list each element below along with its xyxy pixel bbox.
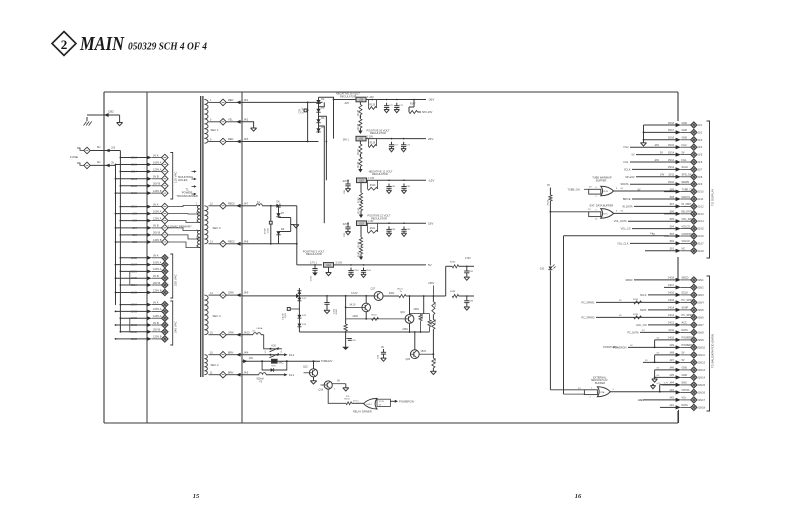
svg-text:J16/16: J16/16	[698, 391, 706, 394]
svg-text:BRN: BRN	[228, 351, 233, 354]
capacitor C160	[361, 268, 372, 278]
svg-text:Q20: Q20	[406, 358, 411, 361]
svg-text:J4/7: J4/7	[669, 359, 674, 362]
resistor divider R136	[358, 115, 362, 130]
arrow to positive 12V regulator	[359, 211, 391, 221]
svg-text:FIL2: FIL2	[682, 144, 688, 147]
svg-text:R160: R160	[336, 308, 338, 314]
svg-text:SDATA: SDATA	[621, 183, 629, 186]
svg-text:ACC: ACC	[682, 322, 687, 325]
wire Q19 to relay driver	[328, 389, 346, 403]
capacitor C84	[386, 226, 396, 236]
resistor R132 pc spkr1	[633, 299, 642, 304]
connector J2/23 120V B	[115, 288, 169, 296]
display pin J5/10 SDWN J1/9	[630, 181, 703, 187]
svg-text:SEC 4: SEC 4	[213, 314, 222, 318]
svg-text:J16/3: J16/3	[698, 294, 705, 297]
bracket 240 VAC	[170, 301, 177, 345]
svg-text:J5/6: J5/6	[669, 211, 674, 214]
wire D10 down to sensor buffer	[549, 271, 551, 390]
svg-text:3 -26V: 3 -26V	[367, 97, 374, 99]
svg-text:R126: R126	[547, 199, 549, 205]
capacitor C94 0V	[378, 346, 387, 362]
svg-text:J16/11: J16/11	[698, 354, 706, 357]
svg-text:SEC 1: SEC 1	[211, 128, 220, 132]
resistor R159	[428, 314, 433, 332]
svg-text:J16/15: J16/15	[698, 384, 706, 387]
svg-text:RED: RED	[228, 138, 233, 141]
capacitor C80 input	[344, 180, 351, 195]
svg-text:BUFFER: BUFFER	[595, 382, 605, 385]
svg-text:240V: 240V	[353, 315, 359, 318]
vertical rail bus 1	[146, 92, 148, 423]
svg-text:SSHF: SSHF	[682, 307, 689, 310]
display pin J5/8 NAVCS J1/11	[632, 196, 704, 202]
positive 5 volt regulator label	[303, 249, 325, 256]
capacitor C130 4700uF	[311, 264, 318, 281]
positive 5 volt regulator U34	[324, 263, 343, 268]
capacitor C90 with ground	[324, 295, 330, 314]
svg-text:FIL2: FIL2	[623, 146, 629, 149]
wire bridge output top	[319, 97, 357, 99]
svg-text:J1/2: J1/2	[698, 131, 703, 134]
wire SEC1 mid to ground	[242, 122, 257, 131]
diode D3	[316, 117, 325, 123]
wire jumper group3	[130, 271, 131, 285]
svg-text:J1/3: J1/3	[698, 139, 703, 142]
svg-text:R139: R139	[370, 142, 376, 144]
tap SEC1 pin 5 YEL	[209, 118, 249, 125]
svg-text:R131: R131	[345, 399, 351, 401]
svg-text:VOLCS: VOLCS	[682, 225, 691, 228]
tap SEC2 pin 11 BRN	[209, 371, 249, 378]
wire 170V branch	[446, 266, 453, 296]
svg-text:0V B: 0V B	[153, 274, 159, 278]
svg-text:IR_DATA: IR_DATA	[622, 205, 633, 208]
gate U17C ext data	[550, 209, 677, 221]
svg-text:470uF: 470uF	[265, 227, 267, 234]
svg-text:J5/3: J5/3	[669, 233, 674, 236]
pod pin J4/15 PC_SPKR1 J16/4	[596, 299, 704, 305]
svg-text:SEC 3: SEC 3	[213, 226, 222, 230]
pod pin J4/1 DATA J16/18	[660, 404, 706, 410]
svg-text:REGULATOR: REGULATOR	[370, 131, 386, 135]
svg-text:U33: U33	[359, 222, 364, 225]
pod pin J4/9 POWERON J16/10	[628, 344, 706, 350]
svg-text:DATA: DATA	[682, 329, 689, 332]
svg-text:C150: C150	[353, 270, 359, 272]
diode D20 on rail	[296, 294, 327, 298]
svg-text:REGULATOR: REGULATOR	[371, 216, 387, 220]
svg-text:U32: U32	[359, 179, 364, 182]
svg-text:POWERON: POWERON	[399, 400, 414, 404]
wire -15V output	[367, 179, 435, 183]
arrow to negative 12V regulator	[358, 167, 393, 177]
svg-text:TO BAL/DATA POD (DATA): TO BAL/DATA POD (DATA)	[711, 334, 715, 368]
resistor R155	[430, 354, 437, 374]
transformer primary winding A	[168, 203, 200, 223]
wire SEC3 bottom	[242, 243, 297, 245]
capacitor C71	[394, 103, 404, 113]
transformer T1 core	[201, 96, 203, 377]
svg-text:154V: 154V	[421, 350, 427, 353]
capacitor C70	[384, 103, 394, 113]
svg-text:ACC_ON: ACC_ON	[636, 324, 647, 327]
svg-text:VOL_DATA: VOL_DATA	[614, 220, 627, 223]
svg-text:VS+: VS+	[682, 397, 687, 400]
display pin J5/3 CONTROL J1/16	[652, 233, 704, 239]
diode D6	[276, 201, 296, 208]
svg-text:J16/1: J16/1	[698, 279, 705, 282]
svg-text:REGULATOR: REGULATOR	[306, 252, 322, 256]
gate U17B tube warmup	[567, 186, 676, 198]
pod pin J4/11 DATA J16/8	[640, 329, 704, 335]
wire bridge center	[307, 102, 309, 141]
svg-text:LEDA: LEDA	[257, 327, 263, 330]
svg-text:TRANSFORMER: TRANSFORMER	[176, 194, 198, 198]
svg-text:RELAY DRIVER: RELAY DRIVER	[353, 410, 372, 414]
svg-text:SEC 2: SEC 2	[211, 363, 220, 367]
positive 26 volt regulator U31	[343, 136, 374, 141]
svg-text:SCLK: SCLK	[682, 292, 689, 295]
svg-text:120V B: 120V B	[153, 288, 162, 292]
svg-text:12 5V: 12 5V	[379, 401, 385, 403]
negative 26 volt regulator U30	[336, 92, 374, 105]
wire fuse upper to bus	[90, 145, 120, 152]
svg-text:15: 15	[193, 493, 200, 500]
svg-text:C160: C160	[366, 270, 372, 272]
pod pin J4/12 ACC J16/7	[648, 322, 704, 328]
svg-text:J2/10: J2/10	[131, 205, 138, 209]
transformer secondary SEC 3	[204, 206, 221, 244]
connector J2/25 0V B	[115, 274, 169, 282]
wire control net long	[564, 233, 669, 394]
svg-text:J1/18: J1/18	[698, 250, 705, 253]
svg-text:6C: 6C	[97, 160, 101, 164]
svg-text:3.12V: 3.12V	[351, 292, 358, 295]
resistor R162	[372, 314, 379, 320]
svg-text:0V B: 0V B	[153, 321, 159, 325]
svg-text:J4/4: J4/4	[669, 382, 674, 385]
svg-text:D10: D10	[540, 269, 545, 271]
relay K20 coil TUBE12V	[242, 358, 333, 367]
capacitor C85	[401, 226, 411, 236]
svg-text:-26V: -26V	[428, 98, 434, 102]
net 0V stub	[547, 184, 550, 195]
svg-text:0V: 0V	[381, 346, 384, 349]
svg-text:2: 2	[61, 37, 68, 52]
external sensor buffer label	[591, 376, 608, 385]
svg-text:SBCD: SBCD	[682, 277, 689, 280]
svg-text:J1/7: J1/7	[698, 168, 703, 171]
svg-text:3 3.6V: 3 3.6V	[336, 263, 343, 265]
left labels display nets	[614, 146, 635, 245]
svg-text:BRN: BRN	[228, 371, 233, 374]
svg-text:R137: R137	[358, 148, 360, 154]
capacitor C93	[464, 296, 474, 310]
ground bias	[342, 332, 349, 350]
bias vertical R160	[333, 296, 347, 332]
svg-text:J2/31: J2/31	[131, 323, 138, 327]
svg-text:-26V: -26V	[654, 159, 659, 162]
svg-text:5V: 5V	[652, 233, 655, 236]
svg-text:5.7V 1: 5.7V 1	[310, 261, 318, 264]
svg-text:SNS: SNS	[682, 382, 687, 385]
capacitor C75 0.1uF	[299, 107, 307, 114]
svg-text:120V B: 120V B	[153, 238, 162, 242]
svg-text:J5/15: J5/15	[668, 144, 675, 147]
svg-text:J4/12: J4/12	[668, 322, 675, 325]
svg-text:GND: GND	[682, 122, 688, 125]
connector J2/30 20V B	[120, 328, 169, 336]
svg-text:J4/10: J4/10	[668, 337, 675, 340]
svg-text:R188: R188	[450, 291, 456, 293]
svg-text:J16/7: J16/7	[698, 324, 705, 327]
svg-text:SCLK: SCLK	[640, 294, 647, 297]
svg-text:J4/4: J4/4	[244, 351, 249, 354]
capacitor C92	[464, 266, 474, 280]
svg-text:100V A: 100V A	[153, 260, 162, 264]
svg-text:115 VAC: 115 VAC	[174, 171, 178, 183]
svg-text:J2/32: J2/32	[131, 316, 138, 320]
wire fuse lower to bus	[90, 160, 115, 167]
svg-text:R154: R154	[435, 318, 437, 324]
wire 26V output	[366, 137, 433, 141]
diode stack D14	[297, 324, 306, 327]
svg-text:FIL1: FIL1	[623, 161, 629, 164]
svg-text:120V B: 120V B	[153, 335, 162, 339]
svg-text:VOL_CLK: VOL_CLK	[617, 242, 629, 245]
svg-text:J5/1: J5/1	[669, 248, 674, 251]
transformer primary winding B	[168, 228, 200, 248]
svg-text:SPD_SN: SPD_SN	[682, 174, 692, 177]
svg-text:R145: R145	[359, 251, 361, 257]
wire SEC1 top to bridge	[242, 102, 323, 104]
svg-text:230 VAC: 230 VAC	[174, 273, 178, 286]
svg-text:U34: U34	[326, 264, 331, 267]
label 236V	[428, 281, 434, 296]
svg-text:SP+24V: SP+24V	[625, 176, 635, 179]
svg-text:J4/5: J4/5	[244, 371, 249, 374]
svg-text:236V: 236V	[428, 281, 434, 285]
transformer secondary SEC 4	[204, 295, 221, 335]
svg-text:GND: GND	[682, 367, 688, 370]
svg-text:0.47uF: 0.47uF	[282, 312, 284, 319]
pod pin J4/17 J16/2	[664, 284, 704, 290]
svg-text:R136: R136	[358, 123, 360, 129]
svg-text:J4/9: J4/9	[244, 292, 249, 295]
svg-text:J1/9: J1/9	[698, 183, 703, 186]
svg-text:-26V: -26V	[654, 144, 659, 147]
svg-text:GND: GND	[682, 137, 688, 140]
resistor R190	[450, 257, 474, 268]
svg-text:J1/13: J1/13	[698, 213, 705, 216]
transistor Q17	[371, 288, 384, 301]
svg-text:U30: U30	[359, 99, 364, 102]
diode stack D13	[297, 315, 306, 318]
svg-text:34.2V: 34.2V	[349, 304, 356, 307]
svg-text:J2/16: J2/16	[131, 156, 138, 160]
svg-text:100V A: 100V A	[153, 160, 162, 164]
label POWERON	[395, 400, 414, 404]
fuse terminal diamond lower	[77, 162, 90, 169]
svg-text:2 26V: 2 26V	[367, 136, 373, 138]
svg-text:J16/4: J16/4	[698, 301, 705, 304]
svg-text:0V A: 0V A	[153, 202, 159, 206]
svg-text:J5/9: J5/9	[669, 188, 674, 191]
svg-text:5V: 5V	[682, 151, 685, 154]
pod pin J4/5 GND J16/14	[655, 374, 706, 380]
wire 200V to R121	[383, 292, 399, 296]
connector J2/24 20V B	[120, 281, 169, 289]
svg-text:Q17: Q17	[371, 288, 376, 291]
svg-text:Q15: Q15	[303, 365, 308, 368]
svg-text:120V A: 120V A	[153, 167, 162, 171]
connector J2/32 120V A	[120, 314, 169, 322]
svg-text:J4/16: J4/16	[668, 292, 675, 295]
svg-text:5V: 5V	[682, 352, 685, 355]
resistor R140	[367, 180, 377, 190]
circuit breaker CB2	[87, 110, 120, 118]
capacitor C95	[346, 339, 357, 343]
svg-text:REGULATOR: REGULATOR	[340, 94, 356, 98]
svg-text:TUBE12V: TUBE12V	[321, 359, 333, 363]
tap SEC1 pin 1 RED	[209, 99, 249, 106]
svg-text:J4/8: J4/8	[244, 240, 249, 243]
svg-text:J5/12: J5/12	[668, 166, 675, 169]
arrow to positive 26V regulator	[358, 128, 390, 135]
svg-text:J1/5: J1/5	[698, 154, 703, 157]
transistor Q20	[406, 332, 434, 361]
ground sensor	[650, 384, 655, 389]
svg-text:RED2: RED2	[228, 240, 235, 243]
wire -26V output	[366, 98, 434, 102]
svg-text:J1/1: J1/1	[698, 124, 703, 127]
svg-text:0V B: 0V B	[153, 175, 159, 179]
svg-text:GND: GND	[682, 129, 688, 132]
svg-text:VOLCK: VOLCK	[682, 240, 691, 243]
arrow below divider	[359, 254, 363, 260]
svg-text:J1/15: J1/15	[698, 228, 705, 231]
svg-text:BUFFER: BUFFER	[596, 178, 607, 182]
display pin J5/7 IR_XMIT J1/12	[634, 203, 704, 209]
display pin J5/16 GND J1/3	[644, 137, 703, 143]
svg-text:R190: R190	[450, 261, 456, 263]
svg-text:J5/7: J5/7	[669, 203, 674, 206]
transformer secondary SEC 2	[204, 355, 219, 375]
svg-text:500mA: 500mA	[257, 377, 265, 380]
connector J2/7 0V B	[115, 224, 169, 232]
display pin J5/12 SCLK J1/7	[632, 166, 703, 172]
wire 5V output	[334, 263, 432, 267]
connector J2/13 0V B	[115, 175, 169, 183]
svg-text:CNTRL: CNTRL	[682, 389, 691, 392]
fuse terminal diamond upper	[77, 147, 90, 154]
diode D4	[316, 97, 325, 133]
svg-text:R135: R135	[358, 109, 360, 115]
svg-text:U17C: U17C	[602, 214, 608, 216]
connector J2/5 120V B	[115, 238, 169, 246]
svg-text:R155: R155	[435, 357, 437, 363]
collector tie wire	[410, 296, 430, 314]
capacitor C81	[386, 184, 396, 194]
earth ground	[84, 117, 92, 126]
svg-text:0V A: 0V A	[153, 300, 159, 304]
svg-text:R140: R140	[370, 185, 376, 187]
connector J2/6 20V B	[120, 231, 169, 239]
svg-text:0V: 0V	[638, 188, 641, 191]
svg-text:C130: C130	[311, 275, 313, 281]
svg-text:J4/2: J4/2	[244, 118, 249, 121]
svg-text:26V 1: 26V 1	[343, 139, 350, 142]
transistor Q15	[303, 361, 318, 384]
svg-text:16: 16	[575, 493, 582, 500]
svg-text:J2/24: J2/24	[131, 283, 138, 287]
transistor Q19	[319, 380, 349, 392]
pod pin J4/16 SCLK J16/3	[648, 292, 704, 298]
svg-text:J16/8: J16/8	[698, 331, 705, 334]
svg-text:J1/10: J1/10	[698, 191, 705, 194]
svg-text:J16/2: J16/2	[698, 286, 705, 289]
svg-text:J4/10: J4/10	[244, 331, 251, 334]
resistor R139	[368, 139, 376, 148]
svg-text:J4/3: J4/3	[669, 389, 674, 392]
svg-text:J2/29: J2/29	[131, 337, 138, 341]
svg-text:R147: R147	[410, 104, 416, 106]
svg-text:J10: J10	[111, 146, 116, 150]
wire to 5V regulator	[296, 206, 322, 265]
diode D2	[316, 107, 325, 113]
svg-text:15V: 15V	[428, 221, 433, 225]
svg-text:U17A: U17A	[599, 391, 605, 394]
amp mid wire	[346, 315, 406, 320]
svg-text:HOLES: HOLES	[178, 178, 188, 182]
svg-text:J2/26: J2/26	[131, 269, 138, 273]
svg-text:R133: R133	[370, 104, 376, 106]
transformer secondary SEC 1	[204, 100, 219, 144]
svg-text:J1/14: J1/14	[698, 220, 705, 223]
svg-text:EXT. DATA BUFFER: EXT. DATA BUFFER	[590, 203, 614, 207]
svg-text:246V: 246V	[402, 328, 408, 331]
svg-text:0V A: 0V A	[153, 254, 159, 258]
svg-text:PC_SPKR1: PC_SPKR1	[581, 301, 595, 304]
connector J2/34 0V A	[120, 300, 169, 308]
fuse F4	[242, 201, 277, 207]
svg-text:J16/17: J16/17	[698, 399, 706, 402]
pod pin J4/7 5V J16/12	[643, 359, 706, 365]
svg-text:R132: R132	[633, 299, 639, 301]
svg-text:5V: 5V	[682, 359, 685, 362]
svg-text:0V A: 0V A	[153, 153, 159, 157]
svg-text:0V: 0V	[337, 380, 340, 383]
bracket TO DISPLAY	[707, 121, 715, 258]
display pin J5/6 EB_DATA J1/13	[664, 211, 704, 217]
resistor R131	[345, 396, 364, 405]
svg-text:J2/27: J2/27	[131, 263, 138, 267]
svg-text:R121: R121	[398, 288, 404, 290]
svg-text:J16/14: J16/14	[698, 376, 706, 379]
svg-text:J5/17: J5/17	[668, 129, 675, 132]
display pin J5/18 GND J1/1	[644, 122, 703, 128]
svg-text:SBCD: SBCD	[626, 279, 633, 282]
svg-text:J4/1: J4/1	[669, 404, 674, 407]
svg-text:GRN: GRN	[228, 331, 234, 334]
connector J2/14 120V A	[120, 167, 169, 175]
positive 12 volt regulator U33	[343, 221, 374, 226]
LED D10	[540, 265, 556, 271]
svg-text:J2/6: J2/6	[132, 233, 137, 237]
svg-text:C161: C161	[285, 312, 287, 318]
